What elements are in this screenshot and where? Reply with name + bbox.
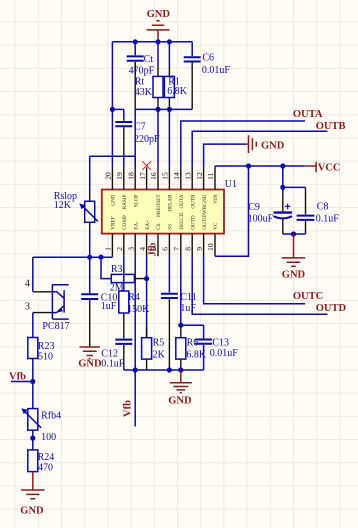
junction slope bus at pin16 — [155, 107, 160, 112]
capacitor C9 100uF (electrolytic) — [248, 190, 293, 234]
junction C9/C8 bottom — [291, 231, 296, 236]
junction VREF wire at R3 drop — [98, 255, 103, 260]
wire Rfb4 to R24 — [32, 430, 34, 450]
junction VCC rail at VC branch — [246, 163, 251, 168]
resistor R24 470 — [28, 450, 54, 474]
junction rail at R6/GND — [178, 367, 183, 372]
resistor R4 150K — [119, 291, 150, 338]
svg-text:6: 6 — [161, 247, 170, 251]
wire C8 branch top — [283, 186, 306, 188]
IC pin names bottom row — [111, 212, 220, 230]
wire C7 branch horizontal — [112, 108, 123, 110]
svg-text:7: 7 — [172, 247, 181, 251]
wire R23 bottom to Vfb junction — [32, 359, 34, 409]
svg-text:PWRGND: PWRGND — [202, 194, 208, 217]
no-ERC marker X on pin 17 — [142, 161, 151, 170]
wire C9 column from VCC rail — [282, 166, 284, 190]
wire pin9 to OUTC — [204, 256, 306, 304]
IC top pin stubs 20..11 — [112, 167, 215, 189]
svg-text:PREOSET: PREOSET — [156, 194, 162, 217]
svg-text:3: 3 — [126, 247, 135, 251]
svg-text:10: 10 — [206, 243, 215, 251]
junction R3 to pin4 column — [144, 276, 149, 281]
svg-text:12K: 12K — [54, 200, 72, 211]
svg-text:C7: C7 — [134, 122, 146, 133]
svg-text:OUTB: OUTB — [316, 121, 346, 132]
svg-text:COMP: COMP — [122, 215, 128, 230]
wire pin2 column down to R4 — [123, 256, 125, 291]
wire pin20 column (GND net down left side) — [111, 42, 113, 168]
capacitor C13 0.01uF — [195, 325, 238, 370]
svg-text:15: 15 — [161, 172, 170, 180]
svg-text:OUTB: OUTB — [190, 194, 196, 209]
svg-text:R5: R5 — [153, 337, 165, 348]
capacitor C10 1uF — [81, 292, 117, 346]
capacitor C12 0.1uF — [101, 340, 132, 370]
svg-text:OUTD: OUTD — [316, 303, 347, 314]
svg-text:12: 12 — [195, 172, 204, 180]
svg-text:3: 3 — [25, 301, 30, 312]
IC bottom pin stubs 1..10 — [112, 234, 215, 257]
svg-text:PC817: PC817 — [42, 321, 69, 332]
svg-text:43K: 43K — [135, 87, 153, 98]
svg-text:EA-: EA- — [133, 221, 139, 230]
svg-text:13: 13 — [183, 172, 192, 180]
junction on GND bus at Rt/GND stem — [155, 39, 160, 44]
junction Vfb stub — [30, 379, 35, 384]
ground GND under R6 — [168, 370, 192, 407]
junction C9/C8 top — [280, 185, 285, 190]
svg-text:1: 1 — [104, 247, 113, 251]
junction slope bus at pin15 — [167, 107, 172, 112]
svg-text:0.1uF: 0.1uF — [101, 359, 125, 370]
ground GND under C9/C8 — [282, 234, 306, 280]
capacitor C8 0.1uF — [297, 187, 340, 234]
svg-text:DELAB: DELAB — [168, 194, 174, 212]
power port VCC — [305, 162, 341, 174]
junction on GND bus at R1 — [167, 39, 172, 44]
wire C9/C8 bottom rail — [283, 233, 306, 235]
wire OUTA from pin14 — [181, 121, 305, 167]
svg-text:2K: 2K — [153, 349, 166, 360]
svg-text:OUTD: OUTD — [190, 215, 196, 230]
junction between Rfb4 and R24 — [30, 436, 35, 441]
wire slope bus (Rt/R1/C6 bottoms) — [135, 108, 192, 110]
wire opto pin3 down to R23 — [32, 313, 34, 338]
junction rail at C11 — [167, 367, 172, 372]
svg-text:EA+: EA+ — [145, 220, 151, 230]
svg-text:C9: C9 — [248, 202, 260, 213]
svg-text:9: 9 — [195, 247, 204, 251]
svg-text:Vfb: Vfb — [9, 372, 26, 383]
wire slope horizontal to Rslop — [90, 155, 136, 157]
resistor R6 6.8K — [176, 325, 207, 370]
optocoupler PC817 — [25, 257, 70, 332]
svg-text:470pF: 470pF — [129, 65, 155, 76]
junction rail at Vfb drop — [133, 367, 138, 372]
resistor Rslop 12K (variable) — [54, 156, 98, 222]
svg-text:17: 17 — [138, 172, 147, 180]
svg-text:Ct: Ct — [144, 54, 154, 65]
svg-text:4: 4 — [25, 279, 30, 290]
svg-text:GND: GND — [282, 269, 306, 280]
svg-text:Rfb4: Rfb4 — [41, 411, 61, 422]
svg-text:GND: GND — [78, 359, 102, 370]
IC bottom pin numbers 1..10 — [104, 243, 216, 251]
capacitor C7 220pF — [115, 109, 160, 156]
svg-text:0.1uF: 0.1uF — [316, 213, 340, 224]
svg-text:150K: 150K — [127, 304, 150, 315]
svg-text:VCC: VCC — [318, 163, 341, 174]
svg-text:VIN: VIN — [213, 194, 219, 203]
svg-text:4: 4 — [138, 247, 147, 251]
svg-text:19: 19 — [115, 172, 124, 180]
svg-text:1uF: 1uF — [101, 301, 117, 312]
svg-text:20: 20 — [104, 172, 113, 180]
svg-text:R24: R24 — [38, 452, 55, 463]
svg-text:SS: SS — [168, 224, 174, 230]
svg-text:220pF: 220pF — [134, 134, 160, 145]
svg-text:R3: R3 — [111, 264, 123, 275]
svg-text:OUTA: OUTA — [293, 109, 323, 120]
svg-text:0.01uF: 0.01uF — [210, 348, 239, 359]
wire R3 drop — [101, 257, 111, 278]
IC top pin numbers 20..11 — [104, 172, 216, 180]
capacitor C6 — [184, 42, 231, 110]
wire OUTB from pin13 — [192, 131, 327, 167]
resistor R5 2K — [142, 327, 166, 370]
svg-text:GND: GND — [111, 194, 117, 205]
svg-text:C6: C6 — [202, 53, 214, 64]
svg-text:16: 16 — [149, 172, 158, 180]
svg-text:100uF: 100uF — [248, 213, 274, 224]
resistor Rt 43K — [135, 42, 163, 110]
svg-text:DELCD: DELCD — [179, 212, 185, 230]
svg-text:C11: C11 — [180, 292, 196, 303]
resistor R3 2M (horizontal) — [110, 264, 147, 294]
svg-text:GND: GND — [168, 396, 192, 407]
svg-text:SLOP: SLOP — [133, 194, 139, 207]
svg-text:Vfb: Vfb — [123, 400, 134, 417]
svg-text:0.01uF: 0.01uF — [202, 65, 231, 76]
junction VCC rail at C9 — [280, 163, 285, 168]
ground GND under R24 — [20, 472, 44, 517]
svg-text:8: 8 — [183, 247, 192, 251]
net label Vfb (left port) — [9, 372, 33, 383]
svg-text:470: 470 — [38, 463, 53, 474]
svg-text:14: 14 — [172, 172, 181, 180]
svg-text:18: 18 — [126, 172, 135, 180]
svg-text:100: 100 — [41, 432, 56, 443]
svg-text:RAMP: RAMP — [122, 194, 128, 209]
svg-text:C13: C13 — [212, 338, 229, 349]
wire bottom rail — [124, 369, 204, 371]
svg-text:510: 510 — [38, 352, 53, 363]
wire pin16 column from slope bus to IC — [157, 109, 159, 167]
svg-text:R23: R23 — [38, 341, 55, 352]
wire pin18 column lower — [134, 156, 136, 167]
svg-text:R4: R4 — [128, 292, 140, 303]
IC U1 body — [102, 179, 237, 234]
wire GND top bus — [112, 41, 192, 43]
wire R6/C13 top horizontal — [181, 324, 204, 326]
svg-text:Jfb: Jfb — [148, 242, 159, 256]
svg-text:CS: CS — [156, 223, 162, 229]
wire pin12 to side ground — [204, 144, 247, 167]
resistor R23 510 — [28, 338, 55, 363]
svg-text:VREF: VREF — [111, 216, 117, 229]
wire Ct bottom to slope bus / pin18 column — [134, 62, 136, 109]
capacitor C11 1uF — [161, 256, 197, 370]
svg-text:OUTC: OUTC — [293, 291, 323, 302]
svg-text:GND: GND — [20, 506, 44, 517]
wire pin8 to OUTD — [192, 256, 327, 314]
wire pin15 column from slope bus to IC — [168, 109, 170, 167]
resistor R1 6.8K — [164, 42, 187, 110]
svg-text:VC: VC — [213, 222, 219, 230]
svg-text:11: 11 — [206, 172, 215, 179]
svg-text:GND: GND — [147, 9, 171, 20]
ground GND (top power port) — [147, 9, 171, 42]
svg-text:6.8K: 6.8K — [167, 86, 188, 97]
wire C7/pin19 column below slope wire — [123, 156, 125, 167]
junction VREF wire at Rslop/C10 — [87, 255, 92, 260]
svg-text:2: 2 — [115, 247, 124, 251]
resistor Rfb4 100 (variable) — [21, 408, 61, 443]
wire pin4 column down to R5 — [146, 256, 148, 338]
wire pin3 column down to Vfb — [134, 256, 136, 426]
wire pin7 column to R6 node — [180, 256, 182, 325]
svg-text:1uF: 1uF — [180, 303, 196, 314]
IC pin names top row — [111, 194, 220, 217]
ground GND under C10 — [78, 347, 102, 370]
junction pin20/C7 branch — [110, 107, 115, 112]
wire pin10 VC loop to VCC rail — [215, 166, 249, 256]
wire Rslop bottom down through junction to C10 — [89, 222, 91, 230]
svg-text:OUTA: OUTA — [179, 194, 185, 208]
wire VCC rail from pin11 — [215, 166, 305, 167]
junction on GND bus at Ct — [133, 39, 138, 44]
svg-text:C8: C8 — [317, 202, 329, 213]
wire pin1 VREF horizontal — [33, 256, 113, 257]
ground GND sideways power port — [246, 135, 285, 153]
svg-text:GND: GND — [261, 141, 285, 152]
junction at R6 top — [178, 323, 183, 328]
capacitor Ct — [127, 42, 155, 77]
svg-text:U1: U1 — [225, 179, 237, 190]
